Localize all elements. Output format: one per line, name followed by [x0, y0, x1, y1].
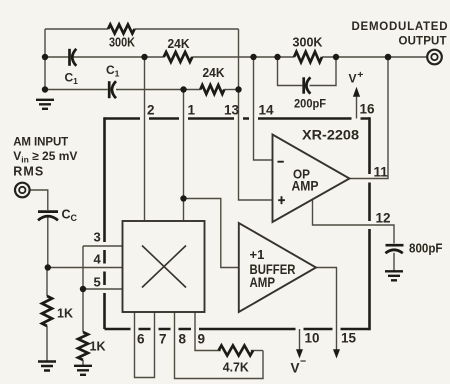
svg-text:9: 9 — [198, 332, 206, 347]
svg-text:6: 6 — [137, 332, 145, 347]
svg-text:+: + — [357, 69, 363, 81]
svg-text:200pF: 200pF — [294, 97, 326, 111]
svg-text:OUTPUT: OUTPUT — [399, 36, 447, 48]
svg-text:V: V — [291, 361, 300, 376]
svg-text:3: 3 — [94, 230, 101, 245]
svg-text:300K: 300K — [109, 35, 136, 50]
svg-text:5: 5 — [94, 275, 101, 290]
svg-text:800pF: 800pF — [409, 242, 443, 256]
svg-text:2: 2 — [147, 103, 155, 118]
svg-text:AM INPUT: AM INPUT — [13, 137, 68, 149]
svg-text:11: 11 — [374, 165, 389, 180]
svg-text:10: 10 — [305, 331, 320, 346]
svg-text:24K: 24K — [168, 37, 190, 51]
svg-text:−: − — [300, 356, 306, 368]
svg-text:14: 14 — [259, 103, 275, 118]
svg-text:RMS: RMS — [13, 165, 43, 179]
svg-text:+1: +1 — [250, 247, 265, 262]
svg-text:13: 13 — [224, 103, 240, 118]
svg-text:4.7K: 4.7K — [223, 361, 249, 375]
svg-text:12: 12 — [376, 211, 391, 226]
svg-text:24K: 24K — [203, 66, 225, 80]
svg-text:AMP: AMP — [292, 179, 319, 194]
svg-text:8: 8 — [179, 332, 187, 347]
svg-text:AMP: AMP — [250, 274, 276, 290]
svg-text:1K: 1K — [57, 307, 73, 321]
svg-text:1K: 1K — [90, 340, 106, 354]
svg-text:15: 15 — [341, 331, 357, 346]
svg-text:4: 4 — [94, 252, 102, 267]
svg-text:16: 16 — [360, 102, 376, 117]
svg-text:7: 7 — [159, 332, 167, 347]
svg-text:XR-2208: XR-2208 — [302, 127, 359, 143]
svg-text:1: 1 — [188, 103, 196, 118]
svg-text:V: V — [349, 72, 357, 86]
svg-text:DEMODULATED: DEMODULATED — [352, 21, 448, 33]
svg-text:300K: 300K — [293, 36, 323, 50]
